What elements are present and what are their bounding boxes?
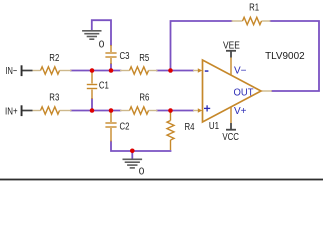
svg-text:C2: C2 [120, 121, 130, 132]
svg-text:C3: C3 [120, 51, 130, 62]
svg-text:OUT: OUT [234, 87, 254, 98]
svg-text:0: 0 [99, 39, 105, 50]
svg-text:R5: R5 [139, 53, 149, 64]
svg-text:V−: V− [234, 66, 247, 77]
svg-text:IN−: IN− [5, 66, 17, 77]
svg-text:VEE: VEE [223, 40, 240, 51]
svg-text:R3: R3 [49, 92, 59, 103]
svg-text:IN+: IN+ [5, 106, 18, 117]
svg-text:U1: U1 [209, 121, 220, 132]
svg-text:TLV9002: TLV9002 [265, 51, 305, 62]
svg-text:VCC: VCC [222, 132, 239, 143]
svg-text:C1: C1 [99, 81, 109, 92]
svg-text:V+: V+ [234, 106, 247, 117]
svg-text:R2: R2 [49, 53, 59, 64]
svg-text:R4: R4 [185, 122, 195, 133]
svg-text:R6: R6 [139, 93, 149, 104]
svg-text:R1: R1 [249, 3, 259, 14]
svg-text:0: 0 [139, 166, 145, 177]
